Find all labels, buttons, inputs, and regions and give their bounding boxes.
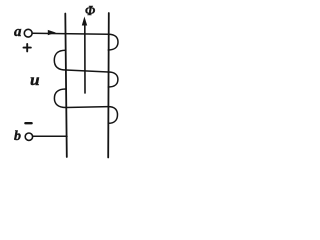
plus sign: [24, 47, 31, 49]
flux arrowhead: [82, 17, 87, 26]
label phi: [85, 4, 95, 20]
label u: [30, 72, 40, 90]
terminal b: [25, 133, 32, 140]
core right rail: [107, 13, 110, 158]
minus sign: [25, 122, 31, 124]
core left rail: [65, 14, 67, 158]
wire turn 3: [66, 106, 108, 109]
wire a: [32, 33, 108, 34]
coil turn 1 left arc: [54, 50, 66, 70]
coil turn 2 left arc: [54, 89, 66, 108]
coil turn 1 right arc: [108, 34, 118, 50]
coil turn 3 right arc: [108, 107, 117, 124]
current arrowhead: [48, 30, 56, 35]
coil turn 2 right arc: [108, 72, 118, 87]
wire b: [33, 135, 67, 137]
label b: [14, 129, 21, 145]
terminal a: [24, 29, 32, 37]
wire turn 2: [66, 70, 108, 72]
label a: [14, 24, 22, 41]
flux line: [84, 23, 86, 93]
